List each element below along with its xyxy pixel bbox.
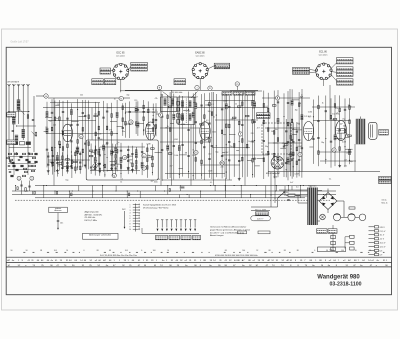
ground stub g58 [95, 159, 97, 160]
ground stub g346 [47, 170, 49, 171]
wire branch w390 [99, 147, 101, 176]
ground stub g415 [120, 173, 121, 174]
wire rectifier connections [337, 200, 344, 202]
junction J212 [239, 141, 240, 142]
junction J303 [334, 151, 335, 152]
resistor R316 [349, 106, 351, 110]
wire top connect h-i-k [125, 89, 258, 91]
svg-text:100k: 100k [154, 181, 158, 183]
svg-text:100k: 100k [331, 120, 335, 122]
svg-text:FM 10,7 MHz: FM 10,7 MHz [85, 220, 97, 222]
ground stub g50 [84, 164, 86, 165]
resistor R97 [129, 121, 131, 125]
wire branch w400 [112, 144, 114, 176]
tube V1 cathode resistor [59, 144, 61, 148]
wire branch w46 [84, 100, 86, 168]
svg-text:M: M [154, 265, 156, 267]
wire branch w101 [137, 101, 139, 136]
circled node p [79, 134, 83, 138]
circled node f inside enclosure [142, 166, 146, 170]
wire link [222, 154, 268, 156]
svg-text:220: 220 [252, 108, 255, 110]
svg-text:M 560 600 700 800 900 100: M 560 600 700 800 900 1000 1100 1300 160… [215, 255, 258, 257]
junction J353 [57, 170, 58, 171]
oscillator coil L4 [76, 147, 79, 154]
svg-text:2k2: 2k2 [80, 95, 83, 97]
antenna A3 [17, 84, 19, 86]
wire antenna note drop [57, 213, 59, 220]
left tie wire 2 [17, 125, 37, 127]
svg-text:88: 88 [109, 250, 111, 252]
coil L140 [178, 114, 181, 120]
resistor R262 [287, 122, 289, 126]
resistor R445 [152, 163, 154, 167]
capacitor C47 [84, 115, 86, 117]
ground stub g79 [111, 167, 113, 168]
ground stub g367 [66, 167, 68, 168]
ground G3 [28, 152, 30, 153]
resistor R245 [267, 128, 269, 132]
resistor R105 [143, 105, 145, 109]
capacitor C343 [47, 155, 49, 157]
svg-text:1k: 1k [120, 181, 122, 183]
svg-text:M: M [321, 265, 323, 267]
junction J149 [188, 109, 189, 110]
svg-text:3: 3 [130, 210, 131, 212]
antenna A1 [7, 84, 9, 86]
wire branch w376 [79, 152, 81, 174]
resistor R273 [298, 103, 300, 107]
resistor R107 [143, 117, 145, 121]
wire long bus 4 [35, 197, 305, 199]
svg-text:1k: 1k [116, 144, 118, 146]
resistor R217 [242, 102, 244, 106]
resistor R373 [75, 152, 77, 156]
coil L67 [102, 145, 105, 151]
svg-text:220: 220 [53, 125, 56, 127]
mains switch S1 [278, 193, 285, 199]
wire stub s236 [255, 165, 260, 167]
resistor R2 left [35, 132, 37, 136]
ground stub g399 [104, 174, 105, 175]
resistor R308 [339, 147, 341, 151]
svg-text:88: 88 [40, 250, 42, 252]
ground stub g45 [82, 160, 83, 161]
wire stub s90 [117, 126, 123, 128]
capacitor C121 [155, 118, 157, 120]
wire link [318, 151, 352, 153]
resistor R71 [106, 126, 108, 130]
svg-text:104: 104 [125, 250, 128, 252]
capacitor C173 [203, 146, 205, 148]
svg-text:Wandgerät 980: Wandgerät 980 [317, 274, 360, 280]
wire branch w299 [334, 95, 336, 166]
svg-text:4n7: 4n7 [195, 96, 198, 98]
junction J234 [254, 140, 255, 141]
bus junction dots [27, 190, 28, 191]
junction J82 [117, 133, 118, 134]
svg-text:1k: 1k [57, 159, 59, 161]
wire vertical run [244, 90, 246, 186]
svg-text:100: 100 [153, 250, 156, 252]
circled node k [208, 86, 212, 90]
resistor R87 [122, 106, 124, 110]
svg-text:9: 9 [130, 226, 131, 228]
resistor R93 [125, 121, 127, 125]
svg-text:ZF 460 kHz: ZF 460 kHz [172, 92, 182, 94]
socket U1 lead down [120, 79, 122, 92]
tube V2 IF amp [146, 122, 156, 140]
wire branch w12 [54, 101, 56, 173]
wire stub s446 [148, 156, 152, 158]
resistor R190 [221, 130, 223, 134]
svg-text:245 V: 245 V [380, 227, 386, 229]
resistor R248 [272, 105, 276, 107]
capacitor C24 [66, 117, 68, 119]
resistor R172 [204, 115, 206, 119]
wire branch w75 [111, 103, 113, 171]
resistor R431 [136, 161, 138, 165]
capacitor C364 [66, 162, 68, 164]
wire branch w124 [161, 94, 163, 181]
ground stub g422 [127, 166, 129, 167]
svg-text:12,5 V: 12,5 V [380, 247, 386, 249]
antenna A5 [26, 84, 28, 86]
capacitor C7 [51, 111, 53, 113]
circled node 1 [17, 176, 21, 180]
wire branch w310 [344, 99, 346, 168]
svg-text:220: 220 [152, 112, 155, 114]
wire branch w368 [71, 155, 73, 178]
svg-text:0,5M: 0,5M [298, 146, 302, 148]
circled node 2 [30, 176, 34, 180]
wire branch w266 [291, 89, 293, 178]
wire link [160, 127, 200, 129]
svg-text:Netz 4c: Netz 4c [382, 201, 388, 204]
svg-text:220 V~: 220 V~ [257, 219, 265, 221]
resistor R363 [66, 159, 70, 161]
svg-text:0,5M: 0,5M [223, 100, 227, 102]
junction J73 [107, 157, 108, 158]
B+ wires [343, 201, 345, 217]
svg-text:47k: 47k [157, 179, 160, 181]
capacitor C377 [79, 152, 81, 154]
label boxes left of U2 [216, 65, 230, 68]
socket U1 pin label boxes right [131, 62, 148, 65]
wire link [215, 119, 258, 121]
resistor R297 [330, 115, 332, 119]
wire branch w372 [74, 150, 76, 173]
dashed chassis line [15, 199, 330, 201]
dial lamp LP1 [320, 214, 326, 220]
ground stub g85 [117, 166, 118, 167]
capacitor C240 [263, 139, 265, 141]
wire branch w251 [277, 90, 279, 177]
ground stub g64 [98, 163, 100, 164]
wire branch w305 [339, 95, 341, 167]
wire link [312, 106, 355, 108]
svg-text:mit 4a: mit 4a [382, 199, 387, 202]
coil L405 [114, 147, 117, 153]
coil L130 [166, 145, 169, 151]
wire long bus 2 [12, 190, 336, 192]
capacitor C126 [161, 148, 163, 150]
wire branch w225 [252, 92, 254, 178]
mains cable to plug [251, 206, 278, 208]
resistor R5 [25, 188, 27, 192]
loudspeaker LS1 [369, 122, 378, 139]
coil L78 [110, 150, 113, 156]
resistor R394 [99, 168, 101, 172]
wire branch w292 [325, 96, 327, 164]
svg-text:4n7: 4n7 [344, 160, 347, 162]
wire stub s360 [57, 162, 62, 164]
resistor R13 [54, 117, 56, 121]
wire branch w200 [228, 96, 230, 180]
svg-text:M: M [144, 265, 146, 267]
wire branch w28 [70, 103, 72, 167]
capacitor C201 [228, 105, 230, 107]
svg-text:4n7: 4n7 [290, 182, 293, 184]
small box above note [256, 212, 269, 215]
wire link [48, 159, 90, 161]
wire branch w437 [146, 144, 148, 178]
socket U1 wire to boxes [128, 67, 131, 71]
resistor R369 [71, 160, 73, 164]
svg-text:m: m [236, 83, 238, 86]
wire branch w416 [127, 146, 129, 174]
capacitor C311 [344, 108, 346, 110]
svg-text:Abgleichpunkte: Abgleichpunkte [85, 211, 100, 214]
resistor R9 [51, 147, 53, 151]
svg-text:Netz ca. 40W: Netz ca. 40W [255, 209, 266, 212]
capacitor C89 [122, 126, 124, 128]
resistor R195 [226, 124, 228, 128]
svg-text:ECC 85: ECC 85 [116, 53, 125, 55]
wire vertical run [289, 89, 291, 172]
resistor R210 [237, 106, 241, 108]
junction J36 [77, 109, 78, 110]
svg-text:0,1: 0,1 [210, 182, 213, 184]
electrolytic can C50c [359, 214, 366, 221]
coil L232 [253, 102, 256, 108]
resistor R381 [89, 150, 93, 152]
capacitor C138 [173, 144, 175, 146]
wire stub s331 [291, 157, 295, 159]
resistor R133 [169, 128, 171, 132]
resistor R100 [135, 122, 137, 126]
left tie wire 1 [10, 111, 29, 113]
coil L319 [348, 149, 351, 155]
wire branch w221 [246, 95, 248, 177]
wire stub s426 [128, 159, 133, 161]
capacitor C191 [221, 155, 223, 157]
resistor R56 [95, 132, 97, 136]
resistor R222 [245, 115, 249, 117]
resistor R398 [104, 164, 106, 168]
capacitor C37 [76, 123, 78, 125]
resistor R418 [127, 154, 128, 158]
resistor R443 [151, 148, 155, 150]
svg-text:0,5M: 0,5M [174, 139, 178, 141]
svg-text:500: 500 [297, 123, 300, 125]
svg-text:100k: 100k [212, 131, 216, 133]
ground stub g40 [77, 166, 78, 167]
wire link [100, 146, 145, 148]
wire link [46, 133, 118, 135]
wire stub s341 [292, 134, 297, 136]
wire stub s26 [62, 166, 67, 168]
svg-text:10n: 10n [94, 113, 97, 115]
resistor R365 [67, 165, 69, 169]
capacitor C31 [70, 140, 72, 142]
svg-text:6: 6 [130, 218, 131, 220]
coil L155 [192, 112, 195, 118]
resistor R176 [209, 102, 211, 106]
junction J39 [77, 153, 78, 154]
capacitor C401 [112, 151, 114, 153]
ground stub g11 [51, 162, 53, 163]
coil L160 [195, 103, 198, 109]
wire stub s409 [110, 161, 116, 163]
resistor R318 [348, 135, 352, 137]
ground stub g27 [67, 167, 68, 168]
ground stub g395 [99, 172, 100, 173]
junction J333 [293, 128, 294, 129]
svg-text:2: 2 [130, 207, 131, 209]
resistor R254 [277, 138, 279, 142]
wire branch w1 [46, 102, 48, 168]
capacitor C203 [228, 141, 230, 143]
capacitor C269 [291, 139, 293, 141]
socket U2 wire to boxes [208, 66, 215, 69]
svg-text:50µ: 50µ [215, 152, 218, 154]
resistor R129 [167, 115, 169, 119]
capacitor C204 [228, 159, 230, 161]
resistor R16 [59, 117, 61, 121]
resistor R220 [242, 157, 244, 161]
wire branch w231 [254, 93, 256, 178]
resistor R207 [232, 117, 236, 119]
resistor R134 [168, 153, 172, 155]
wire stub s33 [71, 121, 78, 123]
wire branch w296 [330, 98, 332, 167]
terminal strip [135, 204, 137, 232]
svg-text:EABC 80: EABC 80 [195, 52, 205, 55]
capacitor C30 [70, 124, 72, 126]
wire branch w119 [155, 103, 157, 136]
coil L3b [15, 135, 18, 142]
ground stub g436 [142, 167, 143, 168]
capacitor C359 [61, 167, 63, 169]
wire stub s414 [115, 163, 121, 165]
svg-text:25p: 25p [230, 119, 233, 121]
svg-text:Änderungen vorbehalten: Änderungen vorbehalten [89, 233, 111, 236]
svg-text:St 47,35,48 64 KW 49m 41m: St 47,35,48 64 KW 49m 41m 31m 25m 19m [100, 254, 137, 257]
wire link [90, 170, 140, 172]
tube V1 EC92 triode [63, 124, 73, 142]
wire branch w315 [349, 98, 351, 164]
bridge rectifier D1-D4 [319, 193, 337, 210]
ground stub g355 [56, 169, 58, 170]
tuner input boxes cluster [13, 142, 19, 145]
wire branch w328 [290, 123, 292, 177]
svg-text:5 9 4: 5 9 4 [329, 250, 333, 252]
antenna coil L1 [17, 100, 20, 111]
wire stub s314 [345, 148, 353, 150]
wire branch w410 [120, 143, 122, 178]
wire branch w347 [52, 150, 54, 174]
svg-text:500: 500 [271, 131, 274, 133]
junction J196 [226, 144, 227, 145]
capacitor C408 [114, 167, 116, 169]
wire branch w80 [116, 100, 118, 171]
wire branch w91 [124, 103, 126, 138]
filter choke [349, 207, 355, 209]
svg-text:0,5M: 0,5M [346, 153, 350, 155]
svg-text:47k: 47k [282, 143, 285, 145]
svg-text:5n: 5n [148, 155, 150, 157]
wire branch w209 [238, 93, 240, 180]
svg-text:47k: 47k [335, 108, 338, 110]
svg-text:6: 6 [314, 250, 315, 252]
left edge label box UKW [7, 140, 16, 145]
svg-text:10n: 10n [61, 131, 64, 133]
svg-text:Antenne: Antenne [54, 209, 61, 212]
ground stub g68 [103, 165, 104, 166]
wire stub s147 [179, 167, 183, 169]
resistor R301 [333, 119, 337, 121]
dial strip line 2 [6, 261, 391, 263]
tuning indicator socket [271, 156, 284, 169]
svg-text:W.P.: W.P. [122, 209, 126, 211]
antenna trimmer C1 [8, 111, 10, 113]
wire branch w433 [141, 143, 143, 175]
wire branch w396 [104, 146, 106, 177]
svg-text:2k2: 2k2 [207, 105, 210, 107]
wire stub s123 [156, 113, 160, 115]
wire stub s174 [200, 124, 204, 126]
svg-text:von unten: von unten [319, 53, 328, 56]
circled node g [112, 173, 116, 177]
svg-text:0,5M: 0,5M [208, 170, 212, 172]
resistor R163 [195, 158, 197, 162]
coil L29 [70, 109, 73, 115]
capacitor C344 [47, 163, 49, 165]
resistor R83 [116, 149, 118, 153]
resistor R167 [200, 123, 204, 125]
resistor R402 [111, 164, 115, 166]
svg-text:16: 16 [66, 250, 68, 252]
wire stub s265 [288, 153, 294, 155]
resistor R324 [284, 144, 288, 146]
socket U2 lead down [199, 78, 201, 90]
tube V5 ECL86 pentode [336, 121, 347, 141]
circled node b [119, 96, 123, 100]
wire branch w247 [273, 91, 275, 179]
wire stub s5 [44, 131, 47, 133]
circled node d inside enclosure [123, 155, 127, 159]
resistor R113 [146, 124, 150, 126]
dial strip line 1 [6, 256, 391, 258]
wire branch w144 [182, 96, 184, 177]
svg-text:220: 220 [251, 133, 254, 135]
svg-text:47k: 47k [220, 162, 223, 164]
svg-text:50µ: 50µ [65, 180, 68, 182]
tube socket U3 ECL86 (bottom view) [315, 63, 332, 80]
resistor R386 [94, 151, 96, 155]
capacitor C3 left [12, 130, 14, 132]
